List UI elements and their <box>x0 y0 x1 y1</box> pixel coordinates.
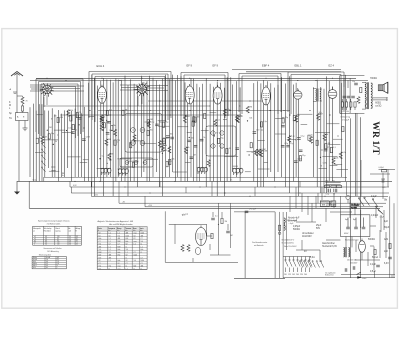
wire magic eye feeds <box>165 203 238 262</box>
svg-text:2M: 2M <box>125 110 128 112</box>
svg-text:EF 9: EF 9 <box>213 64 219 68</box>
tone components row <box>341 80 362 113</box>
svg-text:L1: L1 <box>109 268 111 270</box>
svg-text:0,1μF: 0,1μF <box>371 196 378 198</box>
svg-text:ode: ode <box>69 230 72 232</box>
svg-text:EBF4: EBF4 <box>33 263 37 265</box>
svg-text:ECH 4: ECH 4 <box>97 64 105 68</box>
svg-text:kHz: kHz <box>140 230 143 232</box>
svg-text:WR 1/T: WR 1/T <box>370 121 381 155</box>
svg-text:EZ 4: EZ 4 <box>329 64 335 68</box>
wire top bus <box>30 70 368 81</box>
svg-text:LS-Regler: LS-Regler <box>351 205 359 207</box>
svg-text:1M: 1M <box>328 143 331 145</box>
svg-text:1400: 1400 <box>141 233 145 235</box>
label tube types row <box>97 64 335 69</box>
band switch coils 1b <box>118 169 129 176</box>
capacitor bottom row <box>344 268 346 272</box>
tube V3 radial <box>134 83 151 97</box>
svg-text:600: 600 <box>99 257 102 259</box>
svg-text:Heizwickl 6,3V: Heizwickl 6,3V <box>322 246 337 248</box>
bus ground <box>17 180 392 182</box>
svg-text:0,1μF: 0,1μF <box>380 217 384 219</box>
svg-text:50k: 50k <box>249 118 252 120</box>
antenna terminal box A/E <box>16 113 29 182</box>
svg-text:C7: C7 <box>118 244 120 246</box>
wires power grid extra <box>290 187 386 270</box>
output transformer <box>362 82 372 109</box>
svg-text:0,1μ: 0,1μ <box>342 152 346 154</box>
svg-text:1M: 1M <box>193 155 196 157</box>
table currents <box>32 257 66 269</box>
svg-text:220 240V: 220 240V <box>350 263 358 265</box>
tube V6 EBF4 <box>262 85 271 105</box>
socket plug <box>195 247 200 254</box>
svg-text:82: 82 <box>76 240 78 242</box>
capacitor 2x0,1 <box>245 210 249 212</box>
wires tube V3 electrodes <box>120 85 168 106</box>
svg-text:kHz: kHz <box>126 241 129 243</box>
svg-text:450V: 450V <box>344 233 349 235</box>
svg-text:240: 240 <box>304 274 307 276</box>
label power misc <box>288 196 390 273</box>
svg-text:Abgleich: Werkstattservice-App: Abgleich: Werkstattservice-Apparatur f. … <box>98 220 134 223</box>
svg-text:M: M <box>9 105 11 107</box>
svg-text:C7: C7 <box>109 252 111 254</box>
svg-text:60: 60 <box>46 267 48 269</box>
svg-text:300: 300 <box>170 133 173 135</box>
svg-text:Gleichrichter: Gleichrichter <box>322 242 335 245</box>
svg-text:70: 70 <box>26 101 28 103</box>
svg-text:EBL1: EBL1 <box>33 265 37 267</box>
label bus tags <box>33 180 233 207</box>
wire shield loops stage 5 <box>288 72 344 114</box>
svg-text:S2: S2 <box>126 260 128 262</box>
svg-text:6,3: 6,3 <box>45 238 47 240</box>
svg-text:0,1: 0,1 <box>217 120 220 122</box>
svg-text:70: 70 <box>327 147 329 149</box>
svg-text:25μF: 25μF <box>316 225 322 227</box>
svg-text:0,1μ: 0,1μ <box>263 121 267 123</box>
svg-text:54: 54 <box>69 236 71 238</box>
svg-text:25μ: 25μ <box>159 122 162 124</box>
svg-text:TA: TA <box>9 117 12 120</box>
svg-text:1M: 1M <box>109 160 112 162</box>
svg-text:85: 85 <box>57 238 59 240</box>
tube V4 EF9 <box>185 84 194 104</box>
svg-text:5k: 5k <box>203 137 205 139</box>
svg-text:468: 468 <box>109 257 112 259</box>
wires power inner <box>316 187 384 260</box>
svg-text:Umschalter: Umschalter <box>302 232 314 235</box>
svg-text:4V: 4V <box>304 251 307 253</box>
svg-text:Einsp: Einsp <box>117 228 121 230</box>
svg-text:C7: C7 <box>141 238 143 240</box>
svg-text:36: 36 <box>69 242 71 244</box>
svg-text:70: 70 <box>79 112 81 114</box>
svg-text:0,04μF: 0,04μF <box>371 215 379 217</box>
svg-text:L1: L1 <box>141 244 143 246</box>
svg-text:kHz: kHz <box>118 260 121 262</box>
resistor R eye 2 <box>187 245 190 252</box>
svg-text:100: 100 <box>162 141 165 143</box>
mains filter choke <box>284 218 285 230</box>
svg-text:50k: 50k <box>191 138 194 140</box>
bus upper rail <box>44 176 347 178</box>
svg-text:1,1: 1,1 <box>118 233 120 235</box>
svg-text:468: 468 <box>118 238 121 240</box>
svg-text:3,1: 3,1 <box>57 259 59 261</box>
svg-text:220: 220 <box>300 274 303 276</box>
svg-text:S2: S2 <box>109 235 111 237</box>
svg-text:EZ4: EZ4 <box>33 267 36 269</box>
svg-text:25μ: 25μ <box>302 155 305 157</box>
output stage box <box>340 76 365 114</box>
svg-text:2,6: 2,6 <box>46 259 48 261</box>
coil pack internals <box>125 128 224 165</box>
svg-text:Tr4: Tr4 <box>109 266 111 268</box>
svg-text:0,3A: 0,3A <box>310 256 315 259</box>
bus B+ 3 <box>145 206 383 208</box>
svg-text:+210: +210 <box>148 205 152 207</box>
svg-text:25μ: 25μ <box>352 81 355 83</box>
svg-text:2×0,1μF: 2×0,1μF <box>249 208 257 211</box>
svg-text:0,5M: 0,5M <box>263 150 268 152</box>
svg-text:2M: 2M <box>111 153 114 155</box>
svg-text:25μ: 25μ <box>285 117 288 119</box>
svg-text:0,1μ: 0,1μ <box>290 143 294 145</box>
wire shield loops stage 2 <box>89 72 171 123</box>
svg-text:EBF 4: EBF 4 <box>262 64 270 68</box>
table alignment <box>97 227 147 270</box>
svg-text:85: 85 <box>57 240 59 242</box>
svg-text:MW: MW <box>118 241 121 243</box>
svg-text:Netz 110-240V: Netz 110-240V <box>284 245 297 248</box>
svg-text:30μF: 30μF <box>384 227 390 229</box>
svg-text:50k: 50k <box>335 158 338 160</box>
svg-text:L1: L1 <box>141 268 143 270</box>
tube V7 EBL1 <box>294 88 302 99</box>
band switch contacts <box>41 143 45 172</box>
svg-text:1,1: 1,1 <box>134 244 136 246</box>
svg-text:Gemessen mit Teilalter: Gemessen mit Teilalter <box>43 247 62 250</box>
svg-text:Kern: Kern <box>133 228 137 230</box>
svg-text:600: 600 <box>134 266 137 268</box>
wire shield loops stage 1 <box>36 79 83 138</box>
svg-text:25μ: 25μ <box>117 139 120 141</box>
svg-text:71: 71 <box>76 242 78 244</box>
svg-text:0,1μ: 0,1μ <box>227 109 231 111</box>
svg-text:ca 5Ω: ca 5Ω <box>375 106 381 108</box>
svg-text:145: 145 <box>292 274 295 276</box>
svg-text:max: max <box>118 268 121 270</box>
svg-text:C7: C7 <box>141 257 143 259</box>
svg-text:a3: a3 <box>34 242 36 244</box>
svg-text:B: B <box>76 230 77 232</box>
svg-text:93: 93 <box>76 236 78 238</box>
svg-text:0,1: 0,1 <box>109 110 112 112</box>
svg-text:0,1: 0,1 <box>333 147 336 149</box>
svg-text:5,2: 5,2 <box>46 263 48 265</box>
svg-text:Stromangaben: Stromangaben <box>39 254 51 257</box>
resistors and capacitors field <box>36 106 346 167</box>
resistor R eye 1 <box>181 245 184 252</box>
svg-text:C7: C7 <box>134 252 136 254</box>
svg-text:kHz: kHz <box>118 252 121 254</box>
bus heater 1 <box>70 186 389 188</box>
wire right drop <box>357 113 361 196</box>
svg-text:Spannungsmessungen gegen Chass: Spannungsmessungen gegen Chassis <box>38 220 70 222</box>
switch contacts row 2 <box>299 261 323 268</box>
svg-text:1,1: 1,1 <box>109 246 111 248</box>
svg-text:K2: K2 <box>99 235 101 237</box>
svg-text:50k: 50k <box>172 159 175 161</box>
svg-text:300: 300 <box>150 130 153 132</box>
svg-text:Tr4: Tr4 <box>118 235 120 237</box>
svg-text:7000Ω: 7000Ω <box>370 78 377 80</box>
svg-text:64: 64 <box>76 244 78 246</box>
svg-text:a2: a2 <box>34 238 36 240</box>
svg-text:Trimmer: Trimmer <box>125 228 132 230</box>
svg-text:10% Abweichg: 10% Abweichg <box>47 250 59 253</box>
svg-text:MW: MW <box>118 246 121 248</box>
wire AVC line <box>44 101 290 115</box>
svg-text:max: max <box>134 233 137 235</box>
svg-text:468: 468 <box>141 266 144 268</box>
capacitor block 4+8uF <box>341 215 370 237</box>
svg-text:468: 468 <box>99 246 102 248</box>
svg-text:C7: C7 <box>141 263 143 265</box>
svg-text:mit Antrieb: mit Antrieb <box>254 244 264 247</box>
svg-text:MW: MW <box>99 252 102 254</box>
svg-text:84γ: 84γ <box>332 181 335 183</box>
wire mains bottom ticks <box>375 271 393 278</box>
svg-text:0,1: 0,1 <box>102 156 105 158</box>
svg-text:S2: S2 <box>99 260 101 262</box>
svg-text:110 125 145: 110 125 145 <box>347 260 356 262</box>
svg-text:6,3: 6,3 <box>45 240 47 242</box>
svg-text:0,5M: 0,5M <box>86 137 91 139</box>
tube V1 ECH4 mixer <box>40 83 54 97</box>
band switch coils 1 <box>100 168 111 175</box>
svg-text:25μ: 25μ <box>220 138 223 140</box>
svg-text:a1: a1 <box>34 236 36 238</box>
resistor divider <box>279 225 281 230</box>
label wave range column <box>9 102 13 120</box>
table voltages <box>33 226 82 245</box>
svg-text:468: 468 <box>126 233 129 235</box>
svg-text:mit Röhrenvoltm.: mit Röhrenvoltm. <box>47 222 61 225</box>
svg-text:5k: 5k <box>81 115 83 117</box>
svg-text:2μF: 2μF <box>384 251 389 253</box>
svg-text:kHz: kHz <box>118 255 121 257</box>
voltage selector <box>283 257 312 273</box>
svg-text:EBL 1: EBL 1 <box>295 64 303 68</box>
svg-text:0,1μ: 0,1μ <box>239 115 243 117</box>
speaker <box>378 82 388 93</box>
svg-text:Drehkondensator: Drehkondensator <box>252 241 268 244</box>
tube V2 oscillator <box>98 85 107 104</box>
svg-text:4μF: 4μF <box>384 221 389 223</box>
svg-text:1,6: 1,6 <box>57 263 59 265</box>
svg-text:0,1μ: 0,1μ <box>291 136 295 138</box>
svg-text:600: 600 <box>126 238 129 240</box>
svg-text:300: 300 <box>166 138 169 140</box>
tube V9 magic eye EM4 <box>196 226 207 246</box>
switch mains <box>358 197 382 213</box>
svg-text:1,1: 1,1 <box>141 246 143 248</box>
svg-text:125: 125 <box>288 274 291 276</box>
svg-text:1,1: 1,1 <box>126 252 128 254</box>
svg-text:50V: 50V <box>316 228 321 230</box>
wire shield loops stage 4 <box>239 74 281 115</box>
svg-text:100: 100 <box>257 150 260 152</box>
antenna A <box>10 72 24 114</box>
svg-text:5k: 5k <box>188 147 190 149</box>
svg-text:kHz: kHz <box>99 238 102 240</box>
svg-text:Netzdr 4μF: Netzdr 4μF <box>288 217 300 220</box>
svg-text:K2: K2 <box>134 238 136 240</box>
svg-text:Skala: Skala <box>33 180 37 182</box>
svg-text:0,1: 0,1 <box>73 115 76 117</box>
svg-text:ECH4: ECH4 <box>33 259 37 261</box>
svg-text:5k: 5k <box>103 117 105 119</box>
svg-text:kHz: kHz <box>108 230 111 232</box>
svg-text:6,0: 6,0 <box>46 261 48 263</box>
svg-text:0,05μF: 0,05μF <box>293 226 301 228</box>
svg-text:0,1μF: 0,1μF <box>370 264 377 266</box>
svg-text:1,1: 1,1 <box>109 249 111 251</box>
wire shield loops stage 3 <box>181 73 228 119</box>
svg-text:300: 300 <box>60 117 63 119</box>
tube V8 output <box>328 87 337 98</box>
right margin components <box>347 167 395 228</box>
svg-text:210: 210 <box>57 242 60 244</box>
svg-text:84γ: 84γ <box>326 181 329 183</box>
svg-text:L1: L1 <box>134 268 136 270</box>
svg-text:1,1: 1,1 <box>126 268 128 270</box>
svg-text:1M: 1M <box>54 116 57 118</box>
svg-text:5k: 5k <box>165 145 167 147</box>
svg-text:300: 300 <box>169 161 172 163</box>
svg-text:25μ: 25μ <box>165 122 168 124</box>
svg-text:70: 70 <box>39 138 41 140</box>
antenna coupling components <box>17 96 28 113</box>
ground symbol <box>14 181 20 194</box>
svg-text:0,1: 0,1 <box>341 111 343 113</box>
svg-text:50mA: 50mA <box>372 256 378 259</box>
svg-text:Kreis: Kreis <box>98 228 102 230</box>
svg-text:5000Ω: 5000Ω <box>368 239 375 241</box>
svg-text:L1: L1 <box>141 252 143 254</box>
svg-text:spanng: spanng <box>55 230 60 232</box>
coil pack box 2 <box>120 158 153 167</box>
svg-text:468: 468 <box>141 235 144 237</box>
svg-text:Tr4: Tr4 <box>99 266 101 268</box>
svg-text:0,02μF: 0,02μF <box>379 167 384 169</box>
svg-text:0,1: 0,1 <box>215 216 218 218</box>
svg-text:max: max <box>118 266 121 268</box>
tuning condenser assembly <box>234 212 285 278</box>
svg-text:Tr4: Tr4 <box>126 249 128 251</box>
svg-text:1,1: 1,1 <box>109 238 111 240</box>
svg-text:0,1μ: 0,1μ <box>326 194 329 196</box>
svg-text:Wechselsp: Wechselsp <box>44 228 52 230</box>
svg-text:kHz und MW Abgleichsender: kHz und MW Abgleichsender <box>109 223 133 226</box>
speaker terminals <box>372 98 386 100</box>
svg-text:Gleich: Gleich <box>55 228 60 230</box>
svg-text:0,1μ: 0,1μ <box>284 143 288 145</box>
power transformer <box>344 247 350 257</box>
svg-text:70: 70 <box>229 148 231 150</box>
tube V5 EF9 <box>213 85 222 104</box>
svg-text:L1: L1 <box>126 266 128 268</box>
svg-text:Ski: Ski <box>384 200 388 202</box>
svg-text:1400: 1400 <box>126 235 130 237</box>
svg-text:6,3: 6,3 <box>45 242 47 244</box>
svg-text:Tr4: Tr4 <box>99 268 101 270</box>
wires vertical runs <box>30 75 361 278</box>
svg-text:1400: 1400 <box>141 260 145 262</box>
eye coupling components <box>211 217 215 219</box>
svg-text:0,1μ: 0,1μ <box>68 127 72 129</box>
svg-text:2M: 2M <box>49 127 52 129</box>
svg-text:an: an <box>33 230 35 232</box>
svg-text:110/220V: 110/220V <box>302 236 312 238</box>
wire divider column <box>279 212 281 278</box>
svg-text:2,4: 2,4 <box>69 240 71 242</box>
svg-text:600Ω: 600Ω <box>375 103 381 105</box>
wires interconnect segments <box>35 113 348 172</box>
svg-text:2,1: 2,1 <box>69 238 71 240</box>
svg-text:25μ: 25μ <box>51 133 54 135</box>
svg-text:6,3V: 6,3V <box>384 263 389 265</box>
svg-text:kHz: kHz <box>133 230 136 232</box>
coil pack box 1 <box>125 114 162 153</box>
svg-text:0,5μF: 0,5μF <box>370 271 377 273</box>
svg-text:468: 468 <box>109 255 112 257</box>
svg-text:2M: 2M <box>249 106 252 108</box>
svg-text:kHz: kHz <box>125 230 128 232</box>
svg-text:6,8: 6,8 <box>69 244 71 246</box>
bus heater 2 <box>71 192 389 194</box>
svg-text:5k: 5k <box>311 135 313 137</box>
svg-text:EF9: EF9 <box>33 261 36 263</box>
svg-text:0,1μ: 0,1μ <box>301 135 305 137</box>
IF transformer T7-T8 <box>313 89 322 102</box>
svg-text:g2: g2 <box>34 240 36 242</box>
svg-text:6,3: 6,3 <box>45 236 47 238</box>
svg-text:C7: C7 <box>109 244 111 246</box>
svg-text:5k: 5k <box>114 125 116 127</box>
power input cluster <box>324 181 341 196</box>
svg-text:2×0,1μF: 2×0,1μF <box>342 119 350 122</box>
svg-text:S2: S2 <box>126 255 128 257</box>
svg-text:Frequenz: Frequenz <box>108 228 115 230</box>
svg-text:C7: C7 <box>99 241 101 243</box>
volume control <box>346 195 360 209</box>
svg-text:1M: 1M <box>150 119 153 121</box>
svg-text:C7: C7 <box>126 263 128 265</box>
svg-text:36: 36 <box>46 265 48 267</box>
power section frame wires <box>283 196 395 277</box>
svg-text:1400: 1400 <box>134 255 138 257</box>
svg-text:L1: L1 <box>126 257 128 259</box>
svg-text:+85: +85 <box>122 201 125 203</box>
svg-text:kHz: kHz <box>118 249 121 251</box>
svg-text:300: 300 <box>197 116 200 118</box>
svg-text:220V: 220V <box>362 278 367 280</box>
